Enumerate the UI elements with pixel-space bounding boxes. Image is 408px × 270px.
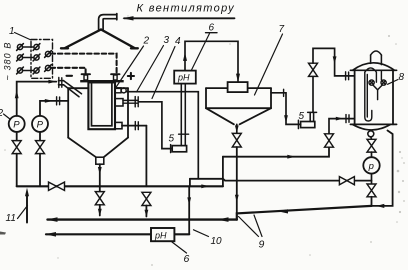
- valve on line a riser: [325, 134, 334, 147]
- svg-text:3: 3: [164, 35, 170, 46]
- svg-text:Р: Р: [13, 120, 20, 131]
- gate valve on line A: [339, 177, 354, 185]
- power supply box 1 (dash-dot enclosure): [31, 40, 53, 79]
- scrubber right overflow down: [372, 131, 393, 209]
- return line to drain: [237, 206, 372, 220]
- scrubber 8 shell: [350, 63, 396, 130]
- valve under right P: [36, 132, 45, 186]
- svg-text:11: 11: [6, 213, 16, 224]
- electrolyzer lid: [80, 80, 124, 82]
- pump p circle: [363, 152, 379, 184]
- svg-text:1: 1: [9, 26, 15, 37]
- label 6 (lower) with leader: [172, 242, 190, 265]
- paper speckle noise: [0, 232, 6, 235]
- valve below pump p: [367, 184, 376, 197]
- bath overflow nozzle (to line A): [115, 88, 126, 93]
- line a: recycle to scrubber bottom: [223, 147, 329, 158]
- vent pipe elbow: [99, 14, 117, 30]
- label 3 with leader: [137, 35, 170, 92]
- breaker contacts row 3: [17, 67, 40, 74]
- scrubber vent gooseneck: [371, 51, 382, 65]
- svg-text:~ 380 В: ~ 380 В: [3, 42, 13, 81]
- label 1: [9, 26, 31, 40]
- svg-text:К вентилятору: К вентилятору: [137, 3, 236, 15]
- pump 5 (first) body: [172, 146, 186, 152]
- svg-text:р: р: [368, 161, 374, 172]
- valve on x146 drop: [142, 192, 151, 205]
- minus sign: [67, 75, 73, 77]
- outer tank walls 4: [68, 88, 128, 137]
- tank cone bottom: [68, 138, 128, 158]
- wire: right P up into tank wall: [40, 97, 68, 116]
- bath lower side nozzle: [115, 122, 146, 130]
- wire over into scrubber top: [313, 48, 355, 80]
- svg-text:рН: рН: [154, 230, 167, 240]
- svg-text:9: 9: [259, 239, 265, 251]
- plus sign: [128, 73, 134, 79]
- dosing pump P right circle: [32, 116, 48, 132]
- settling tank 7 body: [206, 88, 271, 124]
- label 10 with leader: [194, 230, 223, 247]
- feed chute into bath: [59, 78, 82, 97]
- tank 7 bottom outlet: [235, 124, 239, 133]
- tank 7 top box: [228, 82, 248, 92]
- valve under left P: [12, 132, 21, 186]
- dashed wire to anode (+): [51, 54, 117, 74]
- breaker contacts row 1: [17, 44, 40, 51]
- svg-text:2: 2: [0, 108, 4, 119]
- label 11: [6, 206, 28, 225]
- pump 5 (second) body: [301, 122, 315, 128]
- valve above pump p: [367, 137, 376, 152]
- output contact lower: [45, 65, 52, 72]
- wire: left P up to chute: [15, 80, 57, 116]
- fume hood 2: [61, 30, 138, 49]
- scrubber bottom outlet circle: [368, 131, 374, 137]
- scrubber internal dip tube: [365, 68, 382, 121]
- label 8 with leader: [388, 72, 405, 84]
- svg-text:2: 2: [143, 36, 150, 47]
- dosing pump P left circle: [9, 116, 25, 132]
- tank 7 overflow to pump 5 (second): [271, 89, 301, 128]
- label 4 with leader: [152, 36, 181, 99]
- svg-text:6: 6: [184, 253, 190, 265]
- drop to drain with arrow: [98, 205, 102, 217]
- label 2 with leader: [117, 36, 150, 87]
- wire pump p down to return: [371, 197, 373, 206]
- output contact upper: [45, 51, 52, 58]
- svg-text:6: 6: [209, 23, 215, 34]
- dashed wire to cathode (-): [51, 68, 86, 74]
- anode terminal post: [82, 74, 90, 80]
- drop from tank 7 to drain: [235, 147, 239, 214]
- svg-text:7: 7: [279, 24, 285, 35]
- wire into scrubber lower stub: [329, 115, 355, 134]
- line A to pump p: [190, 179, 372, 181]
- breaker contacts row 2: [17, 54, 40, 61]
- pump riser to pH meter: [179, 84, 189, 146]
- label 9 with leaders: [239, 215, 265, 251]
- svg-text:5: 5: [169, 134, 175, 145]
- outer tank rim: [68, 87, 128, 89]
- cathode terminal post: [111, 74, 119, 80]
- drain line with arrows: [47, 217, 237, 222]
- gate valve on manifold: [49, 182, 65, 190]
- pump riser: [308, 76, 317, 121]
- svg-text:4: 4: [175, 36, 181, 47]
- feed line 11 with arrow: [25, 188, 29, 223]
- pH meter 6 (lower) line: [45, 232, 189, 237]
- drop to drain with arrow: [145, 206, 149, 218]
- electrolytic cell outer wall 3: [88, 82, 115, 129]
- label 2 left edge: [0, 108, 11, 120]
- manifold line B: [17, 184, 223, 188]
- wire overflow y92 to riser: [126, 92, 198, 179]
- wire to pump 5 suction: [138, 102, 172, 153]
- pH meter 6 (lower) box: [151, 228, 174, 241]
- valve on riser: [309, 63, 318, 76]
- vertical x189 down to drain and pH line: [187, 179, 191, 234]
- bath cone outlet drop pipe: [98, 164, 102, 191]
- valve under tank 7: [232, 133, 241, 147]
- arrow to ventilator: [122, 16, 234, 20]
- label 7 with leader: [255, 24, 285, 95]
- valve under bath cone: [95, 192, 104, 205]
- cone outlet box: [96, 157, 104, 164]
- label 6 (upper) with underline: [192, 23, 218, 71]
- electrolytic cell inner wall: [92, 82, 112, 125]
- svg-text:рН: рН: [177, 73, 190, 83]
- svg-text:Р: Р: [37, 120, 44, 131]
- pH meter 6 (upper): [174, 71, 196, 84]
- wire pH up and over to tank 7: [183, 41, 240, 82]
- svg-text:5: 5: [299, 111, 305, 122]
- bath upper side nozzle: [115, 97, 138, 107]
- svg-text:8: 8: [399, 72, 405, 83]
- svg-text:10: 10: [211, 236, 223, 247]
- wire down x146: [145, 126, 147, 187]
- vertical x222 (line a riser to manifold): [222, 157, 224, 187]
- spray funnel with nozzles 8: [369, 80, 386, 100]
